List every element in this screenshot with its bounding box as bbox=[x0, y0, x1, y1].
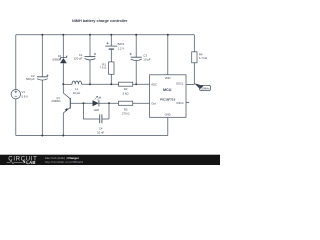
svg-text:1N5817: 1N5817 bbox=[52, 57, 62, 61]
svg-text:270 Ω: 270 Ω bbox=[122, 112, 130, 116]
diode D1 bbox=[52, 54, 67, 63]
svg-text:VDD: VDD bbox=[165, 76, 171, 80]
wire C1 branch top bbox=[89, 35, 91, 57]
wire L1 rail right bbox=[82, 83, 119, 85]
svg-text:1.2 V: 1.2 V bbox=[118, 47, 125, 51]
capacitor C4 bbox=[97, 114, 104, 134]
svg-text:5 kΩ: 5 kΩ bbox=[123, 91, 129, 95]
wire BAT1 to R1 bbox=[110, 49, 112, 62]
wire Q1 base to LED bbox=[70, 102, 92, 104]
svg-text:7.6 Ω: 7.6 Ω bbox=[100, 66, 107, 70]
LED D2 bbox=[93, 96, 101, 112]
wire C2 branch top bbox=[41, 35, 43, 77]
svg-text:GND: GND bbox=[165, 113, 171, 117]
wire LED to R3 bbox=[99, 102, 119, 104]
wire C3 branch top bbox=[135, 35, 137, 57]
node LED anode junction bbox=[83, 102, 85, 104]
svg-text:BAT1: BAT1 bbox=[118, 42, 125, 46]
node bottom rail junctions bbox=[41, 135, 43, 137]
wire emitter down bbox=[62, 113, 64, 136]
svg-text:ADC: ADC bbox=[151, 82, 157, 86]
resistor R4 bbox=[192, 52, 207, 63]
wire MCU GND bbox=[167, 117, 169, 135]
node LED cathode junction bbox=[108, 102, 110, 104]
svg-text:LAB: LAB bbox=[26, 160, 35, 165]
svg-text:http://circuitlab.com/c866ab9: http://circuitlab.com/c866ab9 bbox=[45, 160, 84, 164]
resistor R1 bbox=[100, 62, 114, 74]
wire R1 bottom bbox=[110, 74, 112, 84]
resistor R2 bbox=[119, 82, 133, 95]
wire L1 rail left bbox=[63, 83, 71, 85]
wire D1 branch top bbox=[62, 35, 64, 58]
wire bottom rail bbox=[16, 135, 168, 137]
capacitor C2 bbox=[26, 74, 49, 81]
resistor R3 bbox=[119, 101, 133, 115]
svg-text:10 nF: 10 nF bbox=[97, 130, 104, 134]
node VDD junction bbox=[167, 34, 169, 36]
crystal callout 20MHz bbox=[194, 83, 210, 90]
svg-text:OSC2: OSC2 bbox=[176, 101, 184, 105]
svg-text:10 µH: 10 µH bbox=[73, 91, 81, 95]
svg-text:10 µF: 10 µF bbox=[143, 58, 150, 62]
wire C1 branch bottom bbox=[89, 60, 91, 84]
MCU U1 bbox=[150, 75, 187, 118]
node R1 junction bbox=[110, 83, 112, 85]
svg-text:20MHz: 20MHz bbox=[201, 86, 210, 90]
node collector junction bbox=[62, 83, 64, 85]
voltage source V1 bbox=[11, 90, 28, 99]
svg-text:LED: LED bbox=[94, 108, 99, 112]
wire left side bbox=[15, 35, 17, 90]
wire OSC2 stub bbox=[186, 102, 189, 104]
inductor L1 bbox=[71, 81, 82, 95]
capacitor C1 bbox=[74, 53, 96, 61]
wire below V1 bbox=[15, 99, 17, 136]
wire D1 to collector node bbox=[62, 63, 64, 93]
svg-text:2N3904: 2N3904 bbox=[51, 99, 61, 103]
wire R4 to OSC1 bbox=[186, 63, 194, 85]
wire R2 to MCU ADC bbox=[133, 83, 150, 85]
battery BAT1 bbox=[105, 42, 125, 51]
node top rail junctions bbox=[41, 34, 43, 36]
svg-text:5.6 V: 5.6 V bbox=[22, 94, 29, 98]
wire C3 branch bottom bbox=[135, 61, 137, 85]
footer bar bbox=[0, 155, 220, 165]
node C3 junction bbox=[135, 83, 137, 85]
svg-text:4.7 kΩ: 4.7 kΩ bbox=[199, 56, 207, 60]
wire R3 to MCU Out bbox=[133, 102, 150, 104]
svg-text:500 µF: 500 µF bbox=[26, 77, 35, 81]
wire MCU VDD bbox=[167, 35, 169, 75]
node C1 junction bbox=[89, 83, 91, 85]
svg-text:MCU: MCU bbox=[163, 88, 172, 92]
transistor Q1 bbox=[51, 93, 70, 113]
svg-text:OSC1: OSC1 bbox=[176, 82, 184, 86]
svg-text:PIC16F716: PIC16F716 bbox=[160, 98, 176, 102]
svg-text:NiMH battery charge controller: NiMH battery charge controller bbox=[72, 19, 128, 23]
svg-text:Out: Out bbox=[151, 102, 156, 106]
wire BAT1 branch top bbox=[110, 35, 112, 46]
wire top rail bbox=[16, 34, 195, 36]
capacitor C3 bbox=[130, 53, 151, 62]
svg-text:220 µF: 220 µF bbox=[74, 57, 83, 61]
wire C4 branch bbox=[84, 103, 110, 119]
wire C2 branch bottom bbox=[41, 80, 43, 135]
wire R4 branch bbox=[193, 35, 195, 52]
